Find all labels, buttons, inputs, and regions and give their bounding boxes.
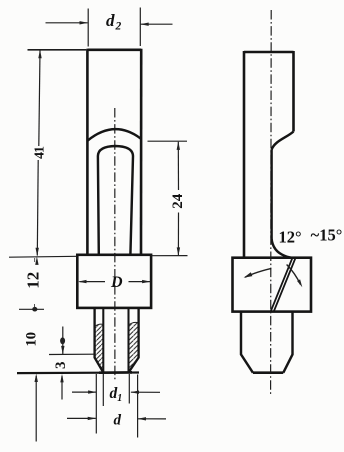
centerline (side view) [270, 10, 273, 395]
extension line y354 [49, 353, 94, 355]
dimension 24 line [177, 142, 179, 190]
hatched wall right [129, 323, 139, 373]
side view lower boss [241, 312, 253, 373]
side view flange block [233, 258, 312, 312]
flange bottom extension line [19, 308, 44, 310]
svg-text:10: 10 [23, 332, 39, 347]
svg-text:41: 41 [33, 146, 48, 159]
punch shank outline (left view) [87, 49, 141, 255]
svg-text:d1: d1 [110, 385, 123, 404]
d outer extension lines [95, 374, 97, 434]
svg-text:D: D [110, 274, 123, 291]
centerline (left view) [114, 108, 116, 380]
outer arch of slot (left view) [87, 129, 141, 141]
flange top extension lines [9, 255, 77, 258]
dimension d1 arrows [72, 391, 96, 393]
dimension 12 arrows [35, 256, 38, 265]
side view narrow web edge [270, 150, 272, 239]
leader arrow right in flange [287, 265, 301, 285]
dimension d2 arrows [46, 22, 88, 24]
side view flare curve [272, 238, 291, 258]
angled slot double line [271, 258, 293, 311]
svg-text:d2: d2 [106, 11, 122, 33]
long reference arrow bottom left [35, 376, 37, 442]
svg-text:12: 12 [23, 272, 42, 289]
bottom edge of boss with extension (left view) [17, 371, 139, 374]
dimension d2 extension lines [87, 9, 89, 47]
dimension 3 lower arrow [61, 376, 63, 400]
side view relief curve [272, 132, 294, 150]
boss outer walls (left view) [95, 308, 104, 372]
d1 extension lines [102, 374, 104, 406]
svg-text:24: 24 [170, 193, 186, 209]
svg-text:12°~15°: 12°~15° [279, 226, 343, 247]
dimension 41 line [39, 51, 40, 147]
hatched wall left [95, 324, 104, 372]
bore lines (left view) [102, 308, 104, 372]
dimension D arrows [80, 281, 106, 283]
extension line for 24 top [148, 140, 188, 142]
svg-text:3: 3 [53, 361, 69, 369]
extension line top left [28, 49, 87, 51]
leader arrow left in flange [245, 268, 271, 277]
side view top section [244, 51, 294, 258]
flange block (left view) [77, 255, 151, 308]
dimension d arrows [67, 417, 96, 419]
dimension 10 line with dot [62, 327, 64, 355]
inner slot (left view) [98, 146, 133, 255]
svg-text:d: d [114, 413, 122, 429]
